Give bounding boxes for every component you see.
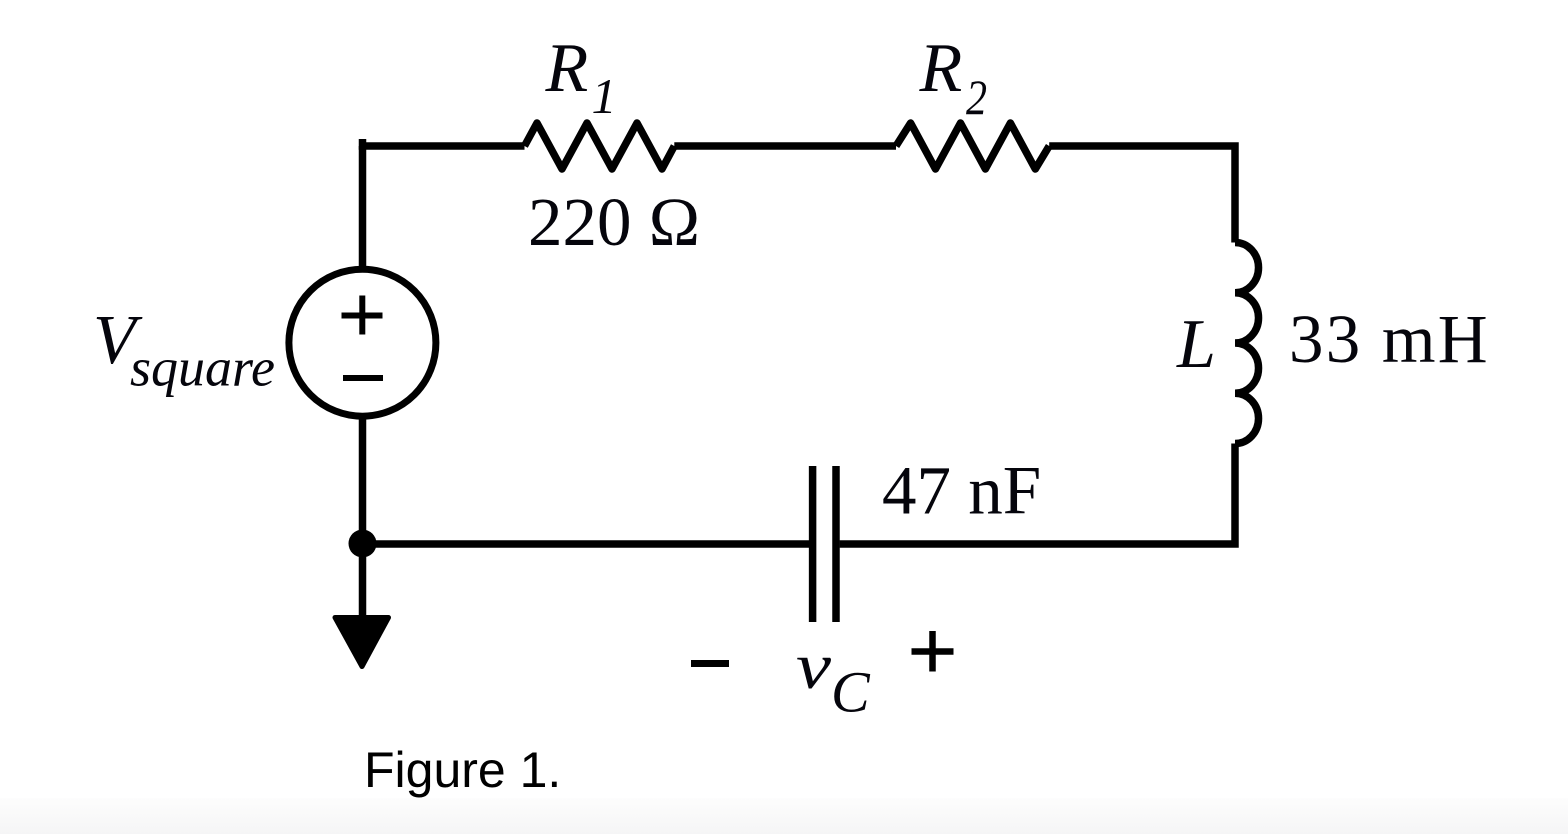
wire: R1 right terminal to R2 left terminal xyxy=(674,142,896,150)
resistor R1 xyxy=(525,123,675,169)
ground symbol triangle xyxy=(335,618,389,667)
wire: inductor bottom to bottom-right corner to capacitor right plate xyxy=(840,444,1235,545)
source plus sign xyxy=(342,296,383,335)
label: capacitor polarity minus xyxy=(691,660,729,667)
wire: capacitor left plate to bottom-left junction node xyxy=(363,540,810,548)
source V_square circle xyxy=(289,269,436,416)
svg-text:220 Ω: 220 Ω xyxy=(528,184,700,260)
wire: R2 right terminal to top-right corner down to inductor top xyxy=(1049,146,1235,243)
svg-text:R: R xyxy=(919,30,963,107)
wire: source bottom lead down to junction xyxy=(359,416,367,544)
resistor R2 xyxy=(896,123,1049,169)
source minus sign xyxy=(343,375,383,381)
svg-text:L: L xyxy=(1176,306,1216,383)
svg-text:v: v xyxy=(796,630,832,703)
wire: top-left corner down to source top terminal xyxy=(359,146,367,268)
svg-text:47 nF: 47 nF xyxy=(882,453,1041,529)
svg-text:1: 1 xyxy=(592,68,617,124)
svg-text:square: square xyxy=(130,338,275,398)
svg-text:R: R xyxy=(545,30,589,107)
inductor L1 xyxy=(1235,243,1259,444)
wire: top-left corner (node A) to R1 left terminal xyxy=(363,139,525,146)
label: capacitor polarity plus xyxy=(912,631,954,672)
svg-text:2: 2 xyxy=(966,69,987,125)
ground stem wire xyxy=(359,544,367,617)
capacitor C1 plate left xyxy=(809,466,817,622)
svg-text:33 mH: 33 mH xyxy=(1289,301,1490,377)
svg-text:Figure 1.: Figure 1. xyxy=(364,742,561,798)
node: junction dot xyxy=(349,530,377,558)
svg-text:C: C xyxy=(831,660,871,725)
capacitor C1 plate right xyxy=(832,466,840,622)
